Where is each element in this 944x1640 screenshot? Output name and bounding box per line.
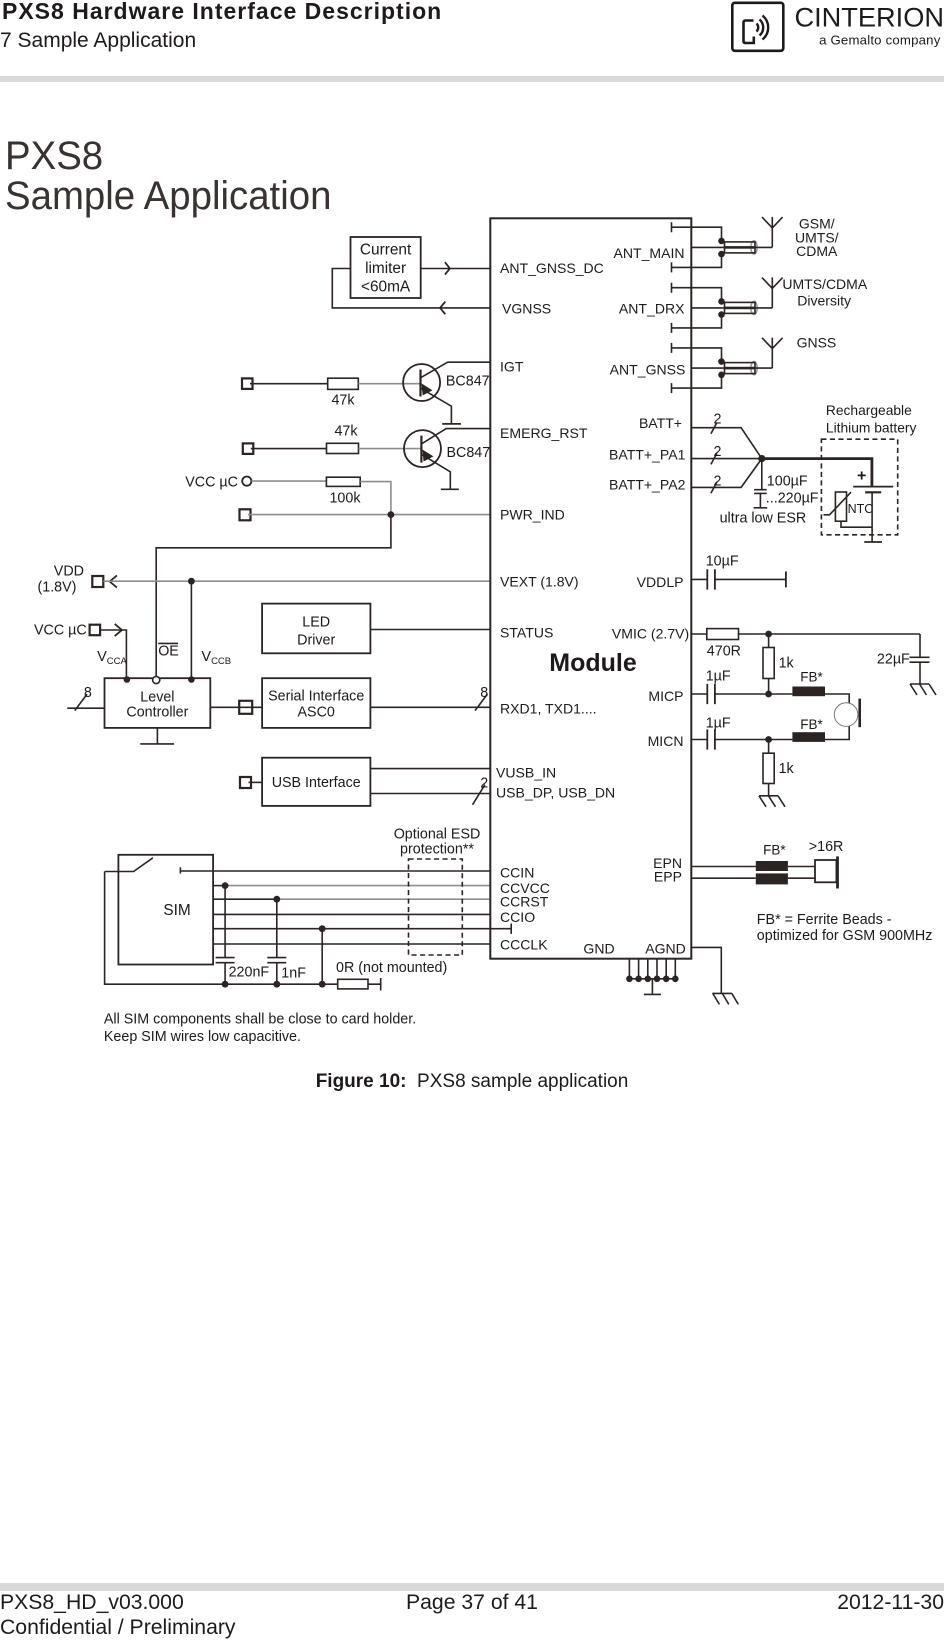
arrow left (VDD) (110, 575, 117, 587)
wire USB_DP USB_DN (370, 793, 490, 795)
ground hatch (MICN 1k) (759, 796, 785, 807)
svg-text:BATT+_PA2: BATT+_PA2 (609, 477, 686, 493)
wire R1 to Q1 base (358, 383, 420, 385)
wire R2 to Q2 base (359, 448, 422, 450)
svg-text:EPP: EPP (654, 869, 682, 885)
SIM presence switch (105, 858, 181, 874)
svg-text:All SIM components shall be cl: All SIM components shall be close to car… (104, 1012, 416, 1028)
svg-text:ultra low ESR: ultra low ESR (720, 511, 807, 527)
svg-text:CDMA: CDMA (796, 243, 838, 259)
svg-text:CCCLK: CCCLK (500, 937, 548, 953)
svg-text:8: 8 (84, 685, 92, 701)
svg-text:MICN: MICN (648, 733, 684, 749)
node VEXT junction (188, 578, 195, 585)
svg-text:Keep SIM wires low capacitive.: Keep SIM wires low capacitive. (104, 1029, 301, 1045)
svg-text:FB* = Ferrite Beads -: FB* = Ferrite Beads - (757, 912, 892, 928)
bus slash BATT+_PA1 2 (711, 453, 717, 464)
svg-text:VMIC (2.7V): VMIC (2.7V) (612, 626, 689, 642)
wire P2 to R2 (251, 448, 327, 450)
svg-text:protection**: protection** (400, 842, 474, 858)
svg-text:ANT_GNSS: ANT_GNSS (610, 362, 686, 378)
node labels GSM/UMTS/CDMA (795, 216, 839, 259)
wire CCIO (213, 913, 490, 915)
battery BT1 (853, 468, 893, 543)
node VMIC junction (765, 631, 772, 638)
gnd pins of module (626, 959, 678, 982)
svg-text:>16R: >16R (809, 839, 844, 855)
svg-text:EMERG_RST: EMERG_RST (500, 425, 588, 441)
svg-text:FB*: FB* (800, 717, 823, 732)
serial interface block (262, 678, 370, 728)
wire R3 to PWR_IND net (360, 482, 391, 515)
svg-text:1µF: 1µF (706, 716, 731, 732)
wire STATUS (370, 629, 490, 631)
node label VDD (1.8V) (38, 564, 84, 596)
module U1 (490, 218, 691, 958)
wire CCCLK to rail (321, 929, 323, 985)
svg-text:VCC µC: VCC µC (34, 623, 87, 639)
resistor R6 1k (763, 740, 795, 796)
svg-text:VDDLP: VDDLP (637, 574, 684, 590)
wire VEXT (103, 580, 490, 582)
ground (Q1 emitter) (442, 423, 461, 425)
bus slash 2 (usb) (473, 785, 485, 805)
svg-text:1k: 1k (779, 656, 795, 672)
svg-text:VUSB_IN: VUSB_IN (496, 765, 556, 781)
wire CCCLK lower (213, 943, 490, 945)
node CCRST junction (273, 896, 280, 903)
transistor Q2 BC847 (404, 429, 490, 489)
footer right (837, 1590, 944, 1615)
ferrite bead FB2 (792, 732, 825, 742)
figure caption (0, 1071, 944, 1093)
wire CCVCC (213, 885, 225, 887)
node CCVCC junction (222, 882, 229, 889)
logo box (732, 3, 783, 51)
usb interface block (262, 758, 370, 806)
footer left (0, 1590, 236, 1640)
node labels UMTS/CDMA Diversity (782, 276, 867, 309)
svg-text:1µF: 1µF (706, 669, 731, 685)
ferrite bead FB1 (792, 687, 825, 697)
ground hatch (AGND) (712, 993, 738, 1004)
ground hatch (22uF) (910, 684, 936, 695)
led driver block (262, 604, 370, 654)
wire MICN (691, 726, 849, 740)
svg-text:Lithium battery: Lithium battery (826, 420, 917, 435)
svg-text:47k: 47k (331, 393, 355, 409)
bus slash BATT+ 2 (711, 423, 717, 434)
wire EPN (691, 866, 815, 868)
svg-text:UMTS/CDMA: UMTS/CDMA (782, 276, 867, 292)
antenna GSM/UMTS/CDMA (762, 217, 783, 248)
capacitor C_micn 1uF (707, 729, 715, 749)
svg-text:RXD1, TXD1....: RXD1, TXD1.... (500, 701, 597, 717)
svg-text:ANT_DRX: ANT_DRX (619, 301, 685, 317)
svg-text:(1.8V): (1.8V) (38, 580, 77, 596)
svg-text:Current: Current (360, 242, 412, 259)
schematic figure (0, 0, 944, 1060)
ANT_MAIN coax connector J1 (672, 222, 758, 272)
terminal tick VDDLP end (785, 571, 787, 587)
svg-text:BC847: BC847 (447, 445, 491, 461)
svg-text:1nF: 1nF (281, 966, 306, 982)
capacitor 100uF ultra low ESR (754, 459, 768, 508)
capacitor C_vddlp 10uF (707, 569, 715, 589)
svg-text:<60mA: <60mA (361, 279, 411, 296)
svg-text:BC847: BC847 (446, 374, 490, 390)
wire VMIC (691, 633, 920, 635)
svg-text:220nF: 220nF (229, 965, 270, 981)
header gray rule (0, 76, 944, 83)
transistor Q1 BC847 (403, 362, 490, 423)
svg-text:47k: 47k (334, 424, 358, 440)
microphone MK1 (834, 699, 859, 728)
svg-text:Driver: Driver (297, 633, 335, 649)
terminal pad VDD (92, 576, 103, 587)
logo phone glyph (744, 21, 754, 44)
cinterion logo (727, 0, 944, 56)
svg-text:1k: 1k (779, 761, 795, 777)
antenna GNSS (762, 338, 783, 369)
resistor R2 47k (327, 443, 359, 453)
svg-text:ANT_MAIN: ANT_MAIN (613, 245, 684, 261)
svg-text:ANT_GNSS_DC: ANT_GNSS_DC (500, 260, 604, 276)
svg-text:BATT+_PA1: BATT+_PA1 (609, 447, 686, 463)
bus slash BATT+_PA2 2 (711, 482, 717, 493)
svg-text:Rechargeable: Rechargeable (826, 403, 912, 418)
node VCCA pin (124, 676, 131, 683)
terminal pad P1 (242, 378, 253, 389)
ANT_GNSS coax connector J3 (672, 343, 758, 393)
wire ANT_MAIN RF line (691, 246, 772, 248)
svg-text:VEXT (1.8V): VEXT (1.8V) (500, 574, 579, 590)
svg-text:LED: LED (302, 615, 330, 631)
svg-text:ASC0: ASC0 (298, 705, 335, 721)
wire level to serial (210, 706, 490, 708)
wire EPP (691, 877, 815, 879)
resistor R5 1k (763, 634, 795, 694)
wire P1 to R1 (250, 383, 328, 385)
wire SIM ground rail (105, 872, 338, 985)
svg-text:2: 2 (714, 474, 722, 490)
svg-text:FB*: FB* (800, 670, 823, 685)
wire CCIN (180, 870, 490, 872)
svg-text:optimized for GSM 900MHz: optimized for GSM 900MHz (757, 928, 933, 944)
svg-text:2: 2 (480, 776, 488, 792)
wire ANT_GNSS_DC (421, 268, 491, 270)
footer center (0, 1590, 944, 1615)
wire BATT+ (691, 428, 762, 459)
wire P5 to usb block (249, 781, 263, 783)
svg-text:PWR_IND: PWR_IND (500, 507, 565, 523)
ANT_DRX coax connector J2 (672, 283, 758, 333)
svg-text:2: 2 (714, 412, 722, 428)
svg-text:0R (not mounted): 0R (not mounted) (336, 960, 447, 976)
wire ANT_GNSS RF line (691, 367, 772, 369)
wire MICP (691, 694, 849, 703)
capacitor C_sim2 1nF (267, 899, 306, 984)
ferrite bead FB3 (756, 861, 788, 871)
ferrite bead FB4 (756, 873, 788, 884)
level controller block (105, 678, 211, 728)
note ferrite beads (757, 912, 933, 944)
wire VCC uC to VCCA (100, 630, 126, 677)
wire VEXT to VCCB (190, 581, 192, 677)
svg-text:...220µF: ...220µF (766, 491, 819, 507)
svg-text:VCC µC: VCC µC (185, 475, 238, 491)
node PWR_IND junction (388, 511, 395, 518)
wire BATT+_PA1 (691, 458, 762, 460)
wire AGND (691, 947, 721, 993)
capacitor C_micp 1uF (707, 684, 715, 704)
speaker LS1 (809, 839, 844, 889)
antenna UMTS/CDMA diversity (762, 277, 783, 308)
svg-text:2: 2 (714, 444, 722, 460)
node rail junction 1 (222, 981, 229, 988)
footer gray rule (0, 1583, 944, 1591)
terminal circle VCC uC (242, 477, 251, 486)
page title (5, 136, 331, 215)
node CCCLK junction (319, 925, 326, 932)
svg-text:SIM: SIM (163, 902, 190, 919)
svg-text:+: + (857, 468, 866, 485)
svg-text:Module: Module (549, 649, 637, 677)
node labels Rechargeable Lithium battery (826, 403, 917, 435)
ground (GND rail) (644, 979, 661, 995)
wire PWR_IND to OE (156, 515, 391, 677)
wire PWR_IND (248, 514, 490, 516)
svg-text:100µF: 100µF (767, 474, 808, 490)
ground (Q2 emitter) (441, 488, 459, 490)
node MICN junction (765, 736, 772, 743)
svg-text:GND: GND (583, 941, 614, 957)
svg-text:OE: OE (158, 644, 179, 660)
thermistor NTC (824, 492, 874, 527)
svg-text:8: 8 (480, 685, 488, 701)
wire VDDLP (691, 578, 786, 580)
SIM holder block (118, 855, 213, 965)
header subtitle (0, 29, 196, 53)
node OE pin (inverting circle) (153, 676, 160, 683)
node label Optional ESD protection** (394, 827, 481, 858)
svg-text:VCCB: VCCB (201, 649, 231, 667)
svg-text:limiter: limiter (365, 260, 406, 277)
current limiter block (351, 237, 421, 298)
arrow right (ANT_GNSS_DC) (445, 262, 450, 274)
svg-text:10µF: 10µF (706, 554, 739, 570)
resistor R7 0R not mounted (336, 960, 447, 990)
svg-text:MICP: MICP (648, 688, 683, 704)
battery dashed outline (821, 439, 897, 535)
wire VGNSS return loop (332, 269, 490, 308)
svg-text:Level: Level (140, 690, 174, 706)
capacitor C_mic 22uF (910, 634, 930, 684)
wire VCC to R3 (251, 480, 326, 482)
resistor R1 47k (328, 378, 359, 389)
node BATT+ junction (758, 455, 765, 462)
wire ANT_DRX RF line (691, 307, 772, 309)
wire battery feed (thick) (762, 459, 872, 486)
svg-text:USB Interface: USB Interface (272, 775, 361, 791)
note SIM wiring (104, 1012, 416, 1046)
ground (level controller) (140, 728, 174, 744)
svg-text:FB*: FB* (763, 843, 786, 858)
svg-text:Optional ESD: Optional ESD (394, 827, 481, 843)
wire CCRST (213, 898, 277, 900)
svg-text:Serial Interface: Serial Interface (268, 689, 364, 705)
svg-text:100k: 100k (329, 491, 361, 507)
svg-text:STATUS: STATUS (500, 625, 553, 641)
svg-text:GNSS: GNSS (797, 335, 837, 351)
pin label OE (inverted) (158, 643, 179, 659)
svg-text:IGT: IGT (500, 359, 524, 375)
bus slash 8 (75, 694, 87, 711)
svg-text:NTC: NTC (848, 502, 874, 516)
svg-text:VDD: VDD (54, 564, 84, 580)
svg-text:BATT+: BATT+ (639, 415, 682, 431)
svg-text:Diversity: Diversity (797, 293, 851, 309)
arrow right (VCC uC) (115, 624, 122, 636)
wire BATT+_PA2 (691, 459, 762, 488)
svg-text:470R: 470R (707, 644, 741, 660)
svg-text:CCRST: CCRST (500, 894, 549, 910)
terminal pad P3 (240, 509, 251, 520)
arrow left (VGNSS) (440, 302, 445, 315)
resistor R4 470R (707, 629, 739, 640)
wire CCCLK (ticked) (213, 924, 511, 934)
logo waves (757, 24, 759, 32)
terminal pad P4 (239, 701, 252, 714)
terminal pad P5 (240, 777, 251, 788)
bus slash 8 (serial) (475, 694, 487, 711)
svg-text:USB_DP, USB_DN: USB_DP, USB_DN (496, 785, 615, 801)
wire VUSB_IN (370, 768, 490, 770)
svg-text:22µF: 22µF (877, 652, 910, 668)
node VCCB pin (188, 676, 195, 683)
header title (2, 0, 442, 25)
value label 100uF...220uF (720, 474, 819, 527)
svg-text:VCCA: VCCA (97, 649, 127, 667)
svg-text:CCIN: CCIN (500, 865, 534, 881)
svg-text:Controller: Controller (126, 705, 188, 721)
capacitor C_sim1 220nF (216, 886, 270, 985)
ESD protection dashed box (409, 859, 463, 955)
svg-text:AGND: AGND (645, 941, 686, 957)
bus wire 8 (uC side) (67, 707, 104, 709)
node rail junction 3 (319, 981, 326, 988)
svg-text:CCIO: CCIO (500, 909, 535, 925)
terminal pad P2 (243, 443, 254, 454)
terminal pad VCC uC (90, 625, 101, 636)
resistor R3 100k (326, 477, 360, 486)
node MICP junction (765, 691, 772, 698)
svg-text:VGNSS: VGNSS (502, 301, 551, 317)
node rail junction 2 (273, 981, 280, 988)
